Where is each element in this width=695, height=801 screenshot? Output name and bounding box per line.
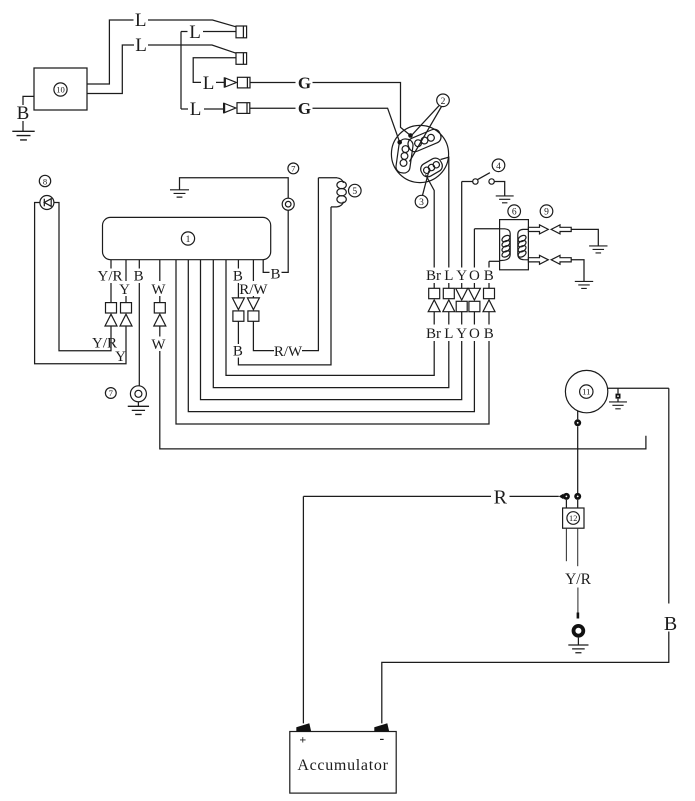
svg-text:Accumulator: Accumulator bbox=[297, 757, 388, 774]
svg-text:8: 8 bbox=[43, 176, 47, 186]
leader 2a bbox=[411, 106, 439, 136]
node dot2 bbox=[397, 140, 402, 145]
leader 3 bbox=[423, 171, 430, 196]
connector T4 with plug bbox=[223, 103, 225, 114]
wire bbox=[462, 181, 473, 183]
label 8 circled bbox=[39, 175, 50, 186]
ground bbox=[568, 645, 588, 653]
connector L pair bbox=[443, 288, 454, 298]
svg-text:L: L bbox=[203, 73, 215, 94]
wire O to unit 1 bbox=[188, 260, 474, 412]
svg-text:R/W: R/W bbox=[274, 344, 303, 360]
unit U10 box bbox=[34, 68, 87, 110]
svg-text:R/W: R/W bbox=[239, 282, 268, 298]
wire R from battery bbox=[303, 495, 491, 497]
wire G upper bbox=[250, 82, 296, 84]
connector Br pair bbox=[429, 288, 440, 298]
wire W long stub bbox=[160, 351, 646, 449]
wire B2 to coil5 bbox=[238, 207, 331, 365]
rotor circle 11 bbox=[565, 370, 607, 412]
connector Y/R pair bbox=[106, 303, 117, 313]
wire bbox=[313, 108, 400, 142]
svg-text:W: W bbox=[151, 337, 166, 353]
ring terminal bold bbox=[574, 626, 584, 636]
node dot1 bbox=[408, 133, 413, 138]
svg-text:7: 7 bbox=[109, 388, 114, 398]
connector B pair bbox=[484, 288, 495, 298]
primary winding bbox=[500, 229, 511, 261]
trigger coil lower bbox=[418, 156, 444, 179]
svg-text:Y: Y bbox=[115, 349, 126, 365]
label 3 circled bbox=[415, 195, 428, 208]
svg-text:Y/R: Y/R bbox=[92, 335, 117, 351]
wire bbox=[577, 426, 579, 493]
wire bbox=[571, 229, 598, 246]
wire bbox=[237, 283, 239, 298]
bullet connector bbox=[574, 419, 581, 426]
svg-text:B: B bbox=[484, 268, 494, 284]
svg-text:O: O bbox=[469, 268, 480, 284]
label 6 circled bbox=[508, 205, 521, 218]
svg-text:L: L bbox=[444, 326, 453, 342]
svg-text:Y/R: Y/R bbox=[565, 571, 592, 588]
battery box bbox=[290, 732, 396, 794]
svg-text:G: G bbox=[298, 73, 311, 92]
wire R/W to coil5 bbox=[302, 178, 318, 351]
ground bbox=[589, 246, 607, 253]
wire stub right bbox=[577, 528, 579, 566]
svg-text:G: G bbox=[298, 99, 311, 118]
wire L from magneto bbox=[441, 157, 449, 267]
svg-text:4: 4 bbox=[496, 162, 501, 172]
wire bbox=[433, 312, 435, 325]
wire L lower from U10 bbox=[87, 45, 134, 94]
switch contacts bbox=[473, 179, 478, 184]
svg-text:6: 6 bbox=[512, 208, 517, 218]
pin R/W wire bbox=[252, 260, 254, 281]
wire bbox=[461, 283, 463, 288]
svg-text:B: B bbox=[233, 343, 243, 359]
connector O pair bbox=[468, 288, 480, 300]
connector Y pair bbox=[121, 303, 132, 313]
wire to ground bbox=[494, 182, 504, 196]
svg-text:B: B bbox=[664, 613, 677, 635]
wire bbox=[473, 283, 475, 288]
wire bbox=[433, 283, 435, 288]
connector R/W pair bbox=[247, 298, 259, 310]
connector B2 pair bbox=[232, 298, 244, 310]
terminal minus bbox=[374, 723, 389, 731]
wire bbox=[488, 312, 490, 325]
lighting coil left bbox=[395, 138, 414, 174]
switch arm bbox=[478, 173, 490, 180]
unit U1 box bbox=[103, 217, 271, 259]
ground bbox=[496, 196, 514, 203]
wire Br from magneto bbox=[426, 175, 435, 268]
wire bbox=[448, 283, 450, 288]
wire bracket bbox=[180, 32, 182, 110]
wire bbox=[488, 283, 490, 288]
svg-text:Y: Y bbox=[456, 326, 467, 342]
svg-text:12: 12 bbox=[569, 514, 577, 523]
flasher symbol bbox=[40, 196, 54, 210]
label 2 circled bbox=[437, 94, 450, 107]
wire B from U10 bbox=[23, 96, 34, 105]
ring terminal 7 bbox=[130, 386, 146, 402]
pin Y wire bbox=[125, 260, 127, 281]
label 1 circled bbox=[181, 232, 194, 245]
label 7 circled bbox=[288, 163, 299, 174]
svg-text:10: 10 bbox=[56, 85, 65, 95]
svg-text:2: 2 bbox=[441, 97, 446, 107]
label 5 circled bbox=[349, 184, 362, 197]
svg-text:1: 1 bbox=[186, 235, 191, 245]
wire down from rotor bbox=[577, 411, 579, 419]
wire bbox=[110, 283, 112, 303]
ignition coil box bbox=[500, 220, 529, 270]
wire B down right side bbox=[668, 388, 670, 603]
wire bbox=[237, 321, 239, 344]
label 10 circled bbox=[54, 83, 67, 96]
wire bbox=[22, 121, 24, 131]
wire bbox=[473, 312, 475, 325]
connector W pair bbox=[154, 303, 165, 313]
wire bbox=[137, 402, 139, 407]
wire O from ignition coil bbox=[473, 229, 475, 268]
svg-text:B: B bbox=[270, 267, 280, 283]
wire stub left bbox=[565, 528, 567, 561]
svg-text:L: L bbox=[135, 10, 147, 31]
ground bbox=[12, 131, 34, 140]
svg-text:+: + bbox=[299, 733, 306, 747]
wire bbox=[138, 283, 140, 386]
svg-text:Y: Y bbox=[456, 268, 467, 284]
unit 12 box bbox=[563, 508, 584, 528]
ground tap connector bbox=[617, 388, 619, 393]
svg-text:L: L bbox=[189, 22, 201, 43]
wire L to unit 1 bbox=[213, 260, 448, 388]
wire bbox=[204, 108, 224, 110]
wire R down left bbox=[302, 496, 304, 723]
wire bbox=[577, 638, 579, 645]
spark plug arrow pair upper bbox=[528, 225, 548, 234]
svg-text:7: 7 bbox=[291, 164, 296, 174]
wire bbox=[125, 296, 127, 303]
ring terminal 7 top bbox=[282, 198, 294, 210]
svg-text:-: - bbox=[379, 732, 384, 747]
wire Y/R to flasher bbox=[54, 203, 111, 351]
wire bbox=[253, 321, 274, 350]
pin B wire bbox=[138, 260, 140, 269]
wire Y from switch bbox=[461, 182, 463, 268]
svg-text:B: B bbox=[134, 269, 144, 285]
pin B3 hook wire bbox=[263, 260, 269, 273]
charge coil upper bbox=[406, 127, 443, 153]
wire bbox=[448, 312, 450, 325]
ground bbox=[128, 406, 149, 414]
connector Y pair bbox=[456, 288, 468, 300]
wire bbox=[571, 260, 584, 282]
wire bbox=[148, 20, 236, 27]
svg-text:B: B bbox=[17, 103, 30, 124]
svg-text:L: L bbox=[190, 99, 202, 120]
pin Y/R wire bbox=[110, 260, 112, 269]
svg-text:9: 9 bbox=[544, 208, 549, 218]
svg-text:W: W bbox=[151, 282, 166, 298]
wire primary feed bbox=[474, 228, 499, 230]
coil 5 loops bbox=[318, 177, 337, 179]
wire Y to flasher bbox=[35, 203, 126, 364]
svg-text:5: 5 bbox=[352, 187, 357, 197]
label 11 circled bbox=[580, 385, 593, 398]
connector T3 with plug bbox=[223, 77, 225, 87]
label 4 circled bbox=[492, 159, 505, 172]
svg-text:B: B bbox=[484, 326, 494, 342]
wire bbox=[252, 296, 254, 298]
ground bbox=[170, 190, 189, 197]
spark plug arrow pair lower bbox=[528, 255, 548, 264]
magneto circle bbox=[391, 125, 448, 182]
wire bbox=[159, 326, 161, 337]
wire hook from T2 bbox=[193, 58, 236, 83]
connector T1 bbox=[236, 26, 247, 38]
connector T2 bbox=[236, 53, 247, 65]
wire to ground bbox=[180, 178, 289, 199]
wire bbox=[313, 83, 411, 136]
wire bbox=[577, 588, 579, 615]
svg-text:R: R bbox=[494, 487, 508, 509]
wire bbox=[461, 312, 463, 325]
svg-text:3: 3 bbox=[419, 198, 424, 208]
svg-text:11: 11 bbox=[582, 387, 590, 397]
wire bbox=[216, 81, 224, 83]
wire into unit 12 bbox=[565, 500, 567, 508]
wire bbox=[510, 495, 559, 497]
wire Br to unit 1 bbox=[226, 260, 434, 376]
label 12 circled bbox=[567, 512, 580, 525]
svg-text:L: L bbox=[444, 268, 453, 284]
ground bbox=[609, 402, 627, 409]
svg-text:Y: Y bbox=[119, 282, 130, 298]
bullet connector with tail bbox=[559, 494, 564, 500]
ground bbox=[575, 281, 593, 288]
wire secondary return bbox=[489, 260, 500, 262]
svg-text:Br: Br bbox=[426, 326, 441, 342]
wire to ring 7 bbox=[282, 210, 289, 272]
leader 2b bbox=[410, 107, 442, 162]
bullet connector bbox=[574, 493, 581, 500]
wire bbox=[382, 632, 669, 724]
terminal plus bbox=[296, 723, 311, 731]
wire B from ignition coil bbox=[488, 261, 490, 267]
svg-text:Br: Br bbox=[426, 268, 441, 284]
wire bbox=[159, 296, 161, 303]
wire bbox=[203, 31, 236, 33]
pin W wire bbox=[159, 260, 161, 281]
wire branch bottom bbox=[181, 108, 188, 110]
wire right to ground tap bbox=[608, 387, 669, 389]
wire L upper from U10 bbox=[87, 20, 134, 84]
wire G lower bbox=[250, 107, 296, 109]
wire branch top bbox=[181, 31, 188, 33]
label 9 circled bbox=[540, 205, 553, 218]
svg-text:L: L bbox=[135, 35, 147, 56]
pin B2 wire bbox=[237, 260, 239, 269]
wire B to unit 1 bbox=[176, 260, 489, 424]
svg-text:O: O bbox=[469, 326, 480, 342]
secondary winding bbox=[518, 229, 529, 259]
wire Y to unit 1 bbox=[201, 260, 462, 400]
label 7 circled bbox=[105, 388, 116, 399]
wire bbox=[148, 45, 236, 53]
